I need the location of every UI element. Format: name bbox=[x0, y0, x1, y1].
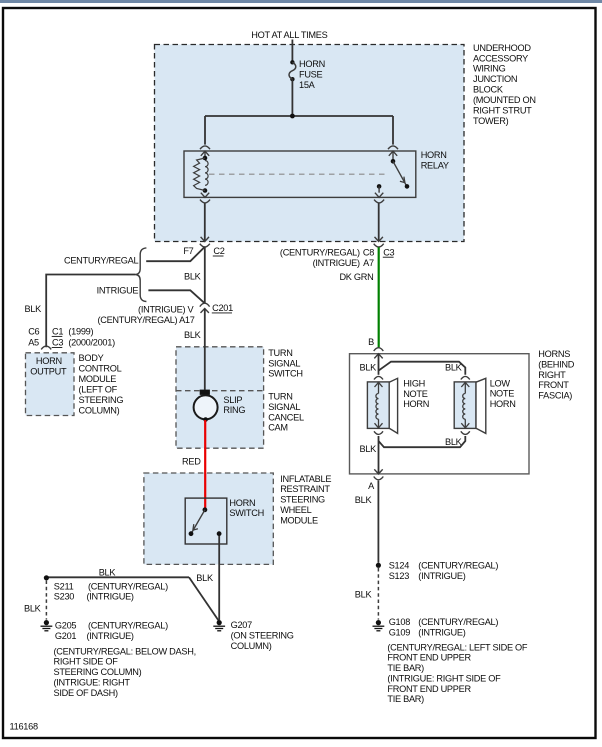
svg-text:CENTURY/REGAL: CENTURY/REGAL bbox=[64, 255, 138, 265]
wire bus to relay switch bbox=[392, 116, 394, 145]
svg-text:HORNS: HORNS bbox=[538, 349, 570, 359]
svg-text:STEERING COLUMN): STEERING COLUMN) bbox=[54, 667, 142, 677]
svg-text:(INTRIGUE): (INTRIGUE) bbox=[418, 571, 465, 581]
svg-text:G201: G201 bbox=[55, 631, 77, 641]
svg-text:UNDERHOOD: UNDERHOOD bbox=[473, 43, 531, 53]
svg-text:(CENTURY/REGAL): (CENTURY/REGAL) bbox=[418, 560, 498, 570]
svg-text:C3: C3 bbox=[52, 338, 63, 348]
svg-text:(2000/2001): (2000/2001) bbox=[68, 338, 115, 348]
connector at relay switch bottom bbox=[375, 193, 383, 198]
svg-text:(CENTURY/REGAL): (CENTURY/REGAL) bbox=[88, 621, 168, 631]
wire RED slip ring to horn switch bbox=[204, 420, 206, 510]
svg-text:DK GRN: DK GRN bbox=[339, 272, 373, 282]
wire bus to relay coil bbox=[204, 116, 206, 145]
svg-text:JUNCTION: JUNCTION bbox=[473, 74, 517, 84]
svg-text:SWITCH: SWITCH bbox=[268, 369, 303, 379]
svg-text:(1999): (1999) bbox=[68, 327, 93, 337]
svg-text:LOW: LOW bbox=[490, 378, 511, 388]
ground G205/G201 bbox=[41, 620, 196, 698]
svg-text:S230: S230 bbox=[54, 592, 75, 602]
wire fuse to bus bbox=[291, 79, 293, 116]
ground G207 bbox=[213, 620, 293, 651]
svg-text:(CENTURY/REGAL): (CENTURY/REGAL) bbox=[88, 581, 168, 591]
svg-text:C201: C201 bbox=[212, 303, 233, 313]
branch INTRIGUE bbox=[97, 285, 205, 303]
svg-text:TOWER): TOWER) bbox=[473, 116, 509, 126]
svg-text:BLK: BLK bbox=[445, 437, 463, 447]
svg-text:NOTE: NOTE bbox=[490, 389, 515, 399]
svg-text:C1: C1 bbox=[52, 327, 63, 337]
wire A to S124 bbox=[377, 481, 379, 563]
svg-text:(INTRIGUE): (INTRIGUE) bbox=[418, 627, 465, 637]
svg-text:ACCESSORY: ACCESSORY bbox=[473, 53, 528, 63]
inflatable restraint steering wheel module box bbox=[144, 473, 331, 564]
svg-text:(BEHIND: (BEHIND bbox=[538, 359, 574, 369]
svg-text:OUTPUT: OUTPUT bbox=[30, 367, 67, 377]
connector at relay switch top bbox=[388, 146, 398, 149]
svg-text:TIE BAR): TIE BAR) bbox=[387, 694, 424, 704]
svg-text:BODY: BODY bbox=[79, 353, 104, 363]
svg-text:BLK: BLK bbox=[25, 304, 43, 314]
svg-text:MODULE: MODULE bbox=[280, 515, 318, 525]
svg-text:CAM: CAM bbox=[268, 423, 288, 433]
underhood accessory wiring junction block bbox=[155, 43, 536, 242]
junction dot on bus bbox=[290, 114, 295, 119]
svg-text:STEERING: STEERING bbox=[280, 495, 325, 505]
svg-text:MODULE: MODULE bbox=[79, 374, 117, 384]
svg-text:SLIP: SLIP bbox=[223, 395, 242, 405]
svg-text:HORN: HORN bbox=[490, 399, 516, 409]
connector C2 at block border, terminal F7 bbox=[183, 237, 224, 256]
svg-text:BLK: BLK bbox=[445, 362, 463, 372]
svg-text:BLK: BLK bbox=[184, 272, 202, 282]
wire relay switch to C3 exit bbox=[378, 203, 380, 241]
svg-text:(CENTURY/REGAL): (CENTURY/REGAL) bbox=[280, 247, 360, 257]
wire low horn bottom branch bbox=[379, 436, 466, 447]
svg-text:INFLATABLE: INFLATABLE bbox=[280, 474, 331, 484]
low note horn bbox=[454, 376, 515, 434]
svg-text:15A: 15A bbox=[299, 80, 316, 90]
turn signal switch box bbox=[176, 347, 304, 448]
svg-text:BLK: BLK bbox=[24, 604, 42, 614]
svg-text:WHEEL: WHEEL bbox=[280, 505, 311, 515]
svg-text:SWITCH: SWITCH bbox=[229, 508, 264, 518]
svg-text:G205: G205 bbox=[55, 621, 77, 631]
svg-text:(ON STEERING: (ON STEERING bbox=[231, 631, 294, 641]
svg-text:F7: F7 bbox=[183, 246, 193, 256]
svg-text:RESTRAINT: RESTRAINT bbox=[280, 484, 330, 494]
connector at relay coil top bbox=[200, 146, 210, 149]
svg-text:HORN: HORN bbox=[36, 356, 62, 366]
connector at relay coil bottom bbox=[201, 193, 209, 198]
svg-text:(INTRIGUE): (INTRIGUE) bbox=[87, 631, 134, 641]
svg-text:FRONT END UPPER: FRONT END UPPER bbox=[387, 684, 471, 694]
svg-text:C6: C6 bbox=[28, 327, 39, 337]
svg-text:G207: G207 bbox=[231, 620, 253, 630]
svg-text:RIGHT: RIGHT bbox=[538, 370, 566, 380]
svg-text:FRONT END UPPER: FRONT END UPPER bbox=[387, 653, 471, 663]
wire to body control module bbox=[25, 275, 136, 348]
svg-text:RIGHT SIDE OF: RIGHT SIDE OF bbox=[54, 657, 119, 667]
svg-text:RELAY: RELAY bbox=[421, 160, 449, 170]
svg-text:BLK: BLK bbox=[355, 590, 373, 600]
svg-text:WIRING: WIRING bbox=[473, 64, 506, 74]
fuse HORN FUSE 15A bbox=[289, 59, 325, 90]
wire C201 to slip ring bbox=[204, 309, 206, 390]
wire dark green C3 to horns B bbox=[378, 247, 380, 347]
svg-text:HIGH: HIGH bbox=[403, 379, 425, 389]
svg-text:HORN: HORN bbox=[403, 399, 429, 409]
connector at BCM: C6/A5 C1/C3 bbox=[28, 327, 115, 350]
horn switch bbox=[185, 498, 264, 544]
svg-text:(LEFT OF: (LEFT OF bbox=[79, 385, 118, 395]
svg-text:RIGHT STRUT: RIGHT STRUT bbox=[473, 106, 532, 116]
connector C201 bbox=[97, 303, 233, 325]
svg-text:BLK: BLK bbox=[359, 444, 377, 454]
svg-text:(INTRIGUE) V: (INTRIGUE) V bbox=[138, 305, 194, 315]
svg-text:BLOCK: BLOCK bbox=[473, 85, 504, 95]
svg-text:FUSE: FUSE bbox=[299, 70, 323, 80]
wire branch to low note horn bbox=[379, 362, 466, 375]
horn relay box bbox=[184, 150, 449, 197]
svg-text:TIE BAR): TIE BAR) bbox=[387, 663, 424, 673]
svg-text:COLUMN): COLUMN) bbox=[231, 641, 272, 651]
svg-text:SIDE OF DASH): SIDE OF DASH) bbox=[54, 688, 118, 698]
wire BLK S211 to G207 bbox=[46, 568, 218, 621]
svg-text:(CENTURY/REGAL): (CENTURY/REGAL) bbox=[418, 617, 498, 627]
svg-text:(CENTURY/REGAL: BELOW DASH,: (CENTURY/REGAL: BELOW DASH, bbox=[54, 647, 196, 657]
slip ring bbox=[194, 390, 246, 422]
svg-text:S211: S211 bbox=[54, 581, 74, 591]
svg-text:COLUMN): COLUMN) bbox=[79, 406, 120, 416]
connector C3 at block border, terminal C8/A7 bbox=[280, 237, 395, 268]
svg-text:TURN: TURN bbox=[268, 348, 292, 358]
svg-text:BLK: BLK bbox=[184, 330, 202, 340]
svg-text:(CENTURY/REGAL: LEFT SIDE OF: (CENTURY/REGAL: LEFT SIDE OF bbox=[387, 642, 528, 652]
svg-text:(MOUNTED ON: (MOUNTED ON bbox=[473, 95, 536, 105]
wire B to high note horn bbox=[378, 354, 380, 375]
svg-text:S123: S123 bbox=[389, 571, 410, 581]
svg-text:NOTE: NOTE bbox=[403, 389, 428, 399]
wire high horn to A exit bbox=[378, 436, 380, 474]
wire bus bbox=[205, 115, 393, 117]
svg-text:SIGNAL: SIGNAL bbox=[268, 402, 300, 412]
horns box bbox=[350, 349, 575, 474]
relay coil bbox=[194, 151, 209, 193]
svg-text:C3: C3 bbox=[383, 247, 394, 257]
wire BLK S211 to G205 (dashed) bbox=[24, 581, 46, 620]
connector B at horns box bbox=[374, 348, 384, 351]
svg-text:HORN: HORN bbox=[299, 59, 325, 69]
svg-text:BLK: BLK bbox=[355, 495, 373, 505]
svg-text:BLK: BLK bbox=[196, 573, 214, 583]
svg-text:BLK: BLK bbox=[359, 362, 377, 372]
svg-text:A5: A5 bbox=[28, 338, 39, 348]
svg-text:(CENTURY/REGAL) A17: (CENTURY/REGAL) A17 bbox=[97, 315, 194, 325]
svg-text:RED: RED bbox=[182, 456, 201, 466]
splice S211/S230 bbox=[44, 575, 168, 602]
relay internal dashed link bbox=[209, 173, 388, 175]
wire BLK S124 to G108 (dashed) bbox=[355, 568, 379, 620]
svg-text:S124: S124 bbox=[389, 560, 410, 570]
svg-text:(INTRIGUE): (INTRIGUE) bbox=[87, 592, 134, 602]
svg-text:HORN: HORN bbox=[421, 150, 447, 160]
svg-text:CANCEL: CANCEL bbox=[268, 412, 304, 422]
svg-text:RING: RING bbox=[223, 405, 245, 415]
svg-text:C2: C2 bbox=[213, 246, 224, 256]
svg-text:TURN: TURN bbox=[268, 392, 292, 402]
svg-text:C8: C8 bbox=[363, 247, 374, 257]
svg-text:116168: 116168 bbox=[10, 722, 38, 732]
svg-text:G109: G109 bbox=[389, 627, 411, 637]
svg-text:(INTRIGUE): (INTRIGUE) bbox=[313, 258, 360, 268]
svg-text:BLK: BLK bbox=[99, 568, 117, 578]
svg-text:INTRIGUE: INTRIGUE bbox=[97, 285, 139, 295]
svg-text:(INTRIGUE: RIGHT SIDE OF: (INTRIGUE: RIGHT SIDE OF bbox=[387, 674, 501, 684]
svg-text:(INTRIGUE: RIGHT: (INTRIGUE: RIGHT bbox=[54, 677, 131, 687]
svg-text:CONTROL: CONTROL bbox=[79, 364, 122, 374]
branch CENTURY/REGAL bbox=[64, 247, 205, 265]
connector A at horns box bottom bbox=[374, 469, 382, 474]
svg-text:SIGNAL: SIGNAL bbox=[268, 358, 300, 368]
svg-text:HORN: HORN bbox=[229, 498, 255, 508]
relay switch bbox=[377, 151, 410, 193]
svg-text:HOT AT ALL TIMES: HOT AT ALL TIMES bbox=[251, 30, 327, 40]
svg-text:A7: A7 bbox=[363, 258, 374, 268]
splice S124/S123 bbox=[376, 560, 499, 581]
wire C2 exit down to C201 bbox=[204, 247, 206, 303]
wire relay coil to C2 exit bbox=[204, 203, 206, 241]
svg-text:B: B bbox=[368, 337, 374, 347]
wire battery feed into block bbox=[291, 40, 293, 63]
high note horn bbox=[367, 376, 429, 434]
svg-text:STEERING: STEERING bbox=[79, 395, 124, 405]
svg-text:FRONT: FRONT bbox=[538, 380, 569, 390]
brace grouping variants bbox=[135, 248, 146, 302]
wire horn switch to G207 bbox=[218, 536, 220, 620]
ground G108/G109 bbox=[373, 617, 528, 704]
svg-text:G108: G108 bbox=[389, 617, 411, 627]
body control module box, HORN OUTPUT bbox=[26, 353, 124, 416]
svg-text:FASCIA): FASCIA) bbox=[538, 391, 572, 401]
